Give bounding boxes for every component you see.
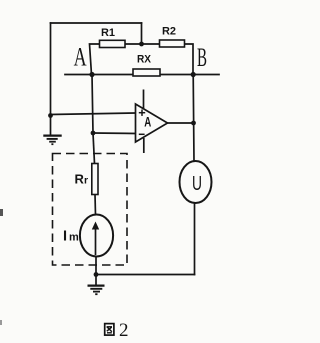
wire current source to ground node [95, 257, 97, 275]
scan speck left edge [0, 209, 3, 216]
caption 图 2 [105, 320, 129, 341]
svg-text:RX: RX [137, 54, 152, 66]
wire A-B horizontal line [65, 74, 219, 76]
wire Rr to current source [94, 195, 97, 216]
node bottom ground junction [94, 272, 99, 277]
scan speck left edge lower [0, 320, 2, 325]
wire op-amp output [168, 122, 194, 124]
wire R1 right lead [125, 43, 142, 45]
ground (bottom) [88, 275, 105, 295]
op-amp bottom power stub [143, 138, 145, 153]
wire voltmeter bottom lead [194, 203, 196, 275]
wire R1 left lead riser from node A [90, 44, 100, 75]
svg-text:R1: R1 [101, 27, 115, 39]
wire top-right vertical to R1/R2 junction [141, 23, 143, 44]
wire node B down to voltmeter [192, 75, 195, 162]
svg-text:R2: R2 [162, 26, 176, 38]
resistor Rr [75, 164, 99, 195]
wire inverting input node down to Rr [93, 133, 95, 164]
op-amp U1 [136, 90, 168, 154]
svg-text:A: A [74, 43, 87, 72]
node B [191, 43, 207, 77]
svg-text:2: 2 [119, 320, 129, 341]
svg-text:U: U [192, 173, 202, 195]
current source Im [63, 215, 113, 257]
svg-text:I: I [63, 229, 67, 245]
svg-text:A: A [144, 114, 151, 130]
ground (left) [43, 136, 61, 145]
wire R2 left lead [142, 43, 160, 45]
wire to op-amp - input [93, 132, 136, 135]
svg-text:B: B [197, 43, 207, 72]
node A [74, 43, 95, 78]
wire R2 right lead down to node B [185, 44, 194, 75]
wire node A down to inverting input node [92, 75, 93, 134]
wire to op-amp + input [51, 113, 136, 115]
dashed box (current source unit) [53, 154, 128, 266]
wire bottom horizontal to ground node [96, 274, 195, 276]
svg-text:m: m [69, 232, 79, 244]
wire left vertical [50, 23, 52, 135]
svg-text:r: r [84, 175, 88, 187]
resistor R1 [100, 27, 126, 48]
node output [191, 121, 196, 126]
resistor R2 [160, 26, 185, 48]
wire top horizontal [51, 22, 142, 24]
svg-text:R: R [75, 172, 85, 187]
op-amp top power stub [143, 90, 145, 110]
node - input tap [91, 131, 96, 136]
node + input tap [48, 113, 53, 118]
node R1-R2 junction [139, 42, 144, 47]
voltmeter U [180, 161, 212, 203]
resistor RX [133, 54, 160, 77]
